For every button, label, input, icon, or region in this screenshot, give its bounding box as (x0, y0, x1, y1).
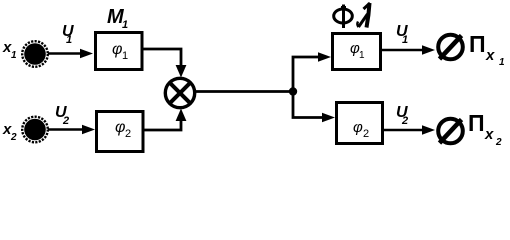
wire block phi1 right to indicator Px1 (382, 45, 435, 55)
node (junction dot) (289, 87, 297, 95)
svg-text:2: 2 (363, 128, 369, 140)
svg-text:2: 2 (495, 137, 502, 148)
svg-text:1: 1 (11, 50, 17, 61)
svg-text:1: 1 (402, 34, 408, 46)
label Px2 (468, 110, 502, 148)
svg-text:Π: Π (469, 31, 486, 57)
label Px1 (469, 31, 505, 68)
wire block phi1 to multiplier (142, 49, 186, 78)
source x2 (22, 117, 48, 143)
svg-text:1: 1 (66, 34, 72, 46)
svg-text:1: 1 (359, 50, 365, 61)
multiplier (mixer) (165, 78, 194, 107)
wire block phi2 to multiplier (143, 109, 186, 131)
svg-text:2: 2 (62, 115, 69, 127)
svg-text:2: 2 (401, 115, 408, 127)
indicator Px1 (438, 35, 463, 60)
svg-text:φ: φ (112, 41, 122, 58)
svg-text:x: x (485, 47, 495, 64)
wire source x1 to block phi1 (48, 49, 93, 59)
block phi2 left (97, 112, 144, 152)
indicator Px2 (438, 119, 463, 144)
svg-text:1: 1 (499, 57, 505, 68)
svg-text:2: 2 (10, 132, 17, 143)
svg-text:φ: φ (115, 119, 125, 136)
label U1 (right) (396, 23, 408, 46)
label FD (334, 3, 370, 28)
wire node to block phi1 right (293, 52, 331, 91)
svg-text:1: 1 (122, 19, 128, 31)
wire block phi2 right to indicator Px2 (384, 125, 435, 135)
label U1 (left) (62, 23, 74, 46)
block phi1 right (333, 34, 381, 70)
block phi1 left (96, 33, 143, 70)
svg-text:x: x (484, 126, 494, 143)
svg-text:Π: Π (468, 110, 485, 136)
svg-text:1: 1 (122, 50, 128, 62)
wire multiplier to node (195, 90, 293, 93)
svg-text:2: 2 (125, 128, 131, 140)
label U2 (right) (396, 104, 408, 127)
wire node to block phi2 right (293, 92, 335, 123)
svg-text:φ: φ (353, 119, 363, 136)
label x2 (2, 121, 17, 143)
label M1 (107, 6, 128, 31)
label U2 (left) (55, 104, 69, 127)
source x1 (22, 41, 48, 67)
label x1 (2, 39, 17, 61)
wire source x2 to block phi2 (48, 125, 95, 135)
block phi2 right (337, 103, 383, 144)
